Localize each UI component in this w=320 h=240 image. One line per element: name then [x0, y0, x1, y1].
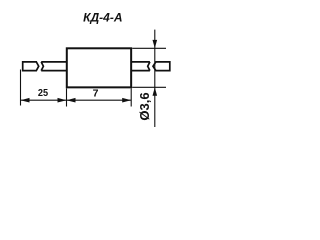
dimension line 25 with arrowheads: [21, 98, 67, 103]
right lead inner segment: [131, 62, 150, 71]
svg-text:7: 7: [93, 88, 99, 100]
dimension line Ø3,6 with arrowheads: [153, 30, 158, 127]
svg-text:КД-4-А: КД-4-А: [83, 11, 122, 25]
extension line at body bottom right: [132, 86, 166, 88]
left lead inner segment: [41, 62, 67, 71]
svg-text:Ø3,6: Ø3,6: [137, 92, 152, 120]
extension line at left lead end: [20, 70, 22, 106]
svg-text:25: 25: [38, 87, 48, 99]
extension line at body top right: [132, 47, 166, 49]
right lead outer segment: [153, 62, 170, 71]
extension line at body right edge: [130, 89, 132, 107]
diode body: [67, 48, 131, 87]
dimension line 7 with arrowheads: [67, 98, 132, 103]
extension line at body left edge: [66, 89, 68, 107]
left lead outer segment: [23, 62, 39, 71]
